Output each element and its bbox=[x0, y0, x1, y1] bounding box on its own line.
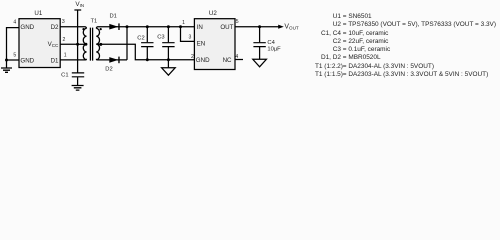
wire U1 pin5 GND bbox=[7, 59, 20, 61]
svg-text:NC: NC bbox=[223, 57, 232, 64]
VIN supply bar and stem down to C1 bbox=[74, 10, 81, 73]
capacitor C4 stubs bbox=[259, 27, 261, 60]
svg-text:IN: IN bbox=[197, 24, 203, 31]
wire secondary bottom to D2 bbox=[96, 59, 127, 60]
wire secondary top to D1 and top rail to U2 IN bbox=[96, 27, 194, 29]
svg-text:VIN: VIN bbox=[75, 1, 84, 8]
svg-text:10µF: 10µF bbox=[267, 46, 281, 52]
junction dot C3 top bbox=[167, 25, 170, 28]
capacitor C4 plates bbox=[253, 43, 265, 47]
svg-text:2: 2 bbox=[63, 37, 66, 43]
wire U1 pin1 D1 to transformer primary bottom bbox=[60, 59, 87, 60]
wire primary center tap bbox=[78, 43, 87, 45]
diode D1 bbox=[109, 24, 118, 30]
svg-text:U1: U1 bbox=[34, 10, 42, 17]
junction dot D2 join top rail bbox=[126, 25, 129, 28]
svg-text:VOUT: VOUT bbox=[284, 24, 299, 31]
junction dot VIN/VCC/C1 bbox=[76, 43, 79, 46]
svg-text:1: 1 bbox=[64, 53, 67, 59]
junction dot EN branch bbox=[179, 25, 182, 28]
capacitor C2 stubs bbox=[146, 27, 148, 60]
phase dot secondary bbox=[100, 28, 102, 30]
svg-text:OUT: OUT bbox=[220, 24, 233, 31]
svg-text:4: 4 bbox=[235, 54, 238, 60]
ground triangle under C4 bbox=[253, 59, 267, 67]
capacitor C1 stubs bbox=[77, 77, 79, 85]
U1 box bbox=[19, 19, 60, 68]
junction dot primary center tap bbox=[84, 43, 87, 46]
svg-text:3: 3 bbox=[189, 35, 192, 41]
svg-text:C4: C4 bbox=[267, 40, 275, 46]
diode D2 bbox=[109, 57, 118, 63]
wire U1 pin4 GND to left vertical bbox=[7, 28, 20, 68]
svg-text:D1: D1 bbox=[110, 14, 117, 20]
svg-text:1: 1 bbox=[182, 20, 185, 26]
junction dot U1 gnd left bbox=[5, 59, 8, 62]
wire U2 OUT to VOUT arrow bbox=[235, 26, 280, 28]
svg-text:D2: D2 bbox=[51, 24, 59, 31]
svg-text:GND: GND bbox=[20, 57, 34, 64]
ground symbol under C1 (3 bars) bbox=[72, 86, 84, 91]
svg-text:EN: EN bbox=[197, 41, 206, 48]
junction dot C3 bottom / gnd bbox=[167, 58, 170, 61]
VOUT arrowhead bbox=[278, 25, 284, 29]
svg-text:U2: U2 bbox=[209, 10, 217, 17]
wire EN branch from top rail to U2 pin3 bbox=[181, 27, 195, 42]
junction dot C2 bottom bbox=[146, 58, 149, 61]
svg-text:3: 3 bbox=[62, 19, 65, 25]
capacitor C2 plates bbox=[141, 43, 153, 47]
svg-text:D1: D1 bbox=[51, 57, 59, 64]
svg-text:5: 5 bbox=[13, 52, 16, 58]
capacitor C1 plates bbox=[72, 73, 84, 77]
transformer T1 primary winding bbox=[83, 28, 86, 59]
junction dot C2 top bbox=[146, 25, 149, 28]
svg-text:GND: GND bbox=[20, 24, 34, 31]
legend text block bbox=[315, 13, 496, 79]
wire U2 NC stub bbox=[235, 59, 243, 61]
svg-text:2: 2 bbox=[191, 54, 194, 60]
svg-text:C1: C1 bbox=[61, 72, 68, 78]
wire U1 pin2 VCC to VIN column bbox=[60, 43, 78, 45]
ground triangle under rail at C3 bbox=[167, 60, 169, 68]
phase dot primary bbox=[82, 28, 84, 30]
ground symbol under U1 (3 bars) bbox=[1, 68, 12, 72]
svg-text:C2: C2 bbox=[137, 36, 144, 42]
U2 box bbox=[194, 19, 235, 70]
svg-text:C3: C3 bbox=[157, 35, 164, 41]
junction dot C4 top bbox=[258, 25, 261, 28]
transformer T1 secondary winding bbox=[96, 28, 99, 59]
wire secondary center tap to ground rail bbox=[96, 44, 194, 60]
svg-text:4: 4 bbox=[13, 20, 16, 26]
transformer T1 core bbox=[90, 28, 92, 61]
capacitor C3 plates bbox=[162, 43, 174, 47]
junction dot secondary center tap bbox=[99, 43, 102, 46]
svg-text:5: 5 bbox=[236, 19, 239, 25]
wire U1 pin3 D2 to transformer primary top bbox=[60, 27, 87, 29]
svg-text:GND: GND bbox=[196, 57, 210, 64]
wire D2 output up to top rail bbox=[126, 27, 128, 60]
svg-text:T1: T1 bbox=[91, 19, 98, 25]
svg-text:D2: D2 bbox=[105, 66, 112, 72]
capacitor C3 stubs bbox=[167, 27, 169, 60]
svg-text:VCC: VCC bbox=[48, 41, 59, 48]
